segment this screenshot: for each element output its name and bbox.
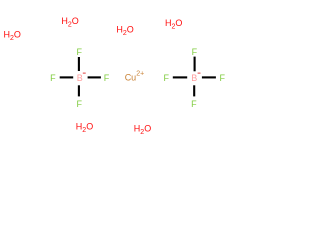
svg-text:F: F — [77, 47, 83, 57]
svg-text:F: F — [77, 99, 83, 109]
svg-text:B: B — [191, 73, 197, 83]
svg-text:F: F — [50, 73, 56, 83]
svg-text:F: F — [104, 73, 110, 83]
svg-text:F: F — [219, 73, 225, 83]
bond B1-F right — [88, 76, 101, 78]
bond B2-F top — [194, 57, 196, 72]
bond B2-F right — [202, 76, 216, 78]
bond B1-F top — [78, 57, 80, 71]
bond B2-F left — [173, 76, 187, 78]
svg-text:F: F — [191, 99, 197, 109]
svg-text:F: F — [192, 47, 198, 57]
svg-text:F: F — [163, 73, 169, 83]
bond B1-F left — [60, 76, 73, 78]
svg-text:B: B — [77, 73, 83, 83]
bond B1-F bottom — [78, 85, 80, 96]
bond B2-F bottom — [193, 85, 195, 96]
charge minus on B2 — [198, 73, 201, 74]
charge minus on B1 — [83, 73, 86, 74]
